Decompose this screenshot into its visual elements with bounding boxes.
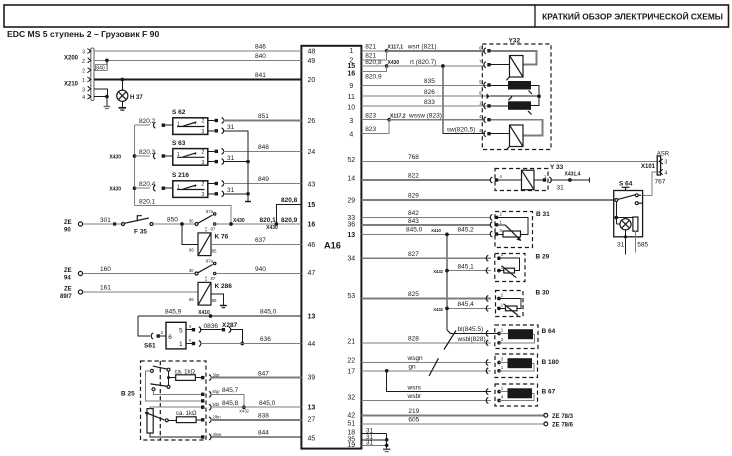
svg-text:S 216: S 216 bbox=[172, 172, 189, 179]
svg-text:wsgn: wsgn bbox=[407, 355, 424, 362]
svg-text:rt (820.7): rt (820.7) bbox=[410, 59, 436, 66]
ground main bbox=[383, 448, 390, 450]
wire 842 A16 pin33 to B31 bbox=[361, 216, 491, 218]
wire 849 S216 pin2 to A16 pin43 bbox=[208, 183, 215, 185]
wire wsrs gn-junction to B67 bbox=[387, 371, 491, 392]
wire 160 bbox=[83, 273, 195, 275]
svg-text:2: 2 bbox=[82, 69, 85, 75]
header banner title text bbox=[534, 5, 536, 27]
svg-text:849: 849 bbox=[258, 176, 269, 183]
wire S64 left contact down bbox=[615, 202, 617, 225]
svg-text:820,1: 820,1 bbox=[139, 198, 156, 205]
wire 161 bbox=[83, 291, 198, 293]
svg-text:31: 31 bbox=[227, 124, 235, 131]
wire 845 sensor bus vertical bbox=[446, 234, 448, 330]
wire S216 pin3 to 31 bus bbox=[208, 193, 215, 195]
svg-text:X410: X410 bbox=[198, 310, 210, 316]
svg-text:46: 46 bbox=[308, 242, 316, 249]
wire 850 bbox=[153, 223, 195, 225]
wire H37 to ground bbox=[121, 101, 123, 108]
ground below K286 bbox=[220, 305, 227, 307]
wire 847 output to A16 pin39 bbox=[201, 376, 204, 379]
wire 822 A16 pin14 to Y33 bbox=[361, 179, 491, 181]
svg-text:27: 27 bbox=[308, 417, 316, 424]
svg-text:B 180: B 180 bbox=[542, 359, 560, 366]
svg-text:42: 42 bbox=[347, 412, 355, 419]
svg-text:21: 21 bbox=[347, 339, 355, 346]
wire 851 S62 pin2 to A16 pin26 bbox=[208, 120, 215, 122]
wire 823 A16 pin4 joins pin3 bbox=[361, 120, 389, 134]
svg-text:87: 87 bbox=[211, 226, 216, 231]
svg-text:29: 29 bbox=[347, 198, 355, 205]
svg-text:wsbl(828): wsbl(828) bbox=[457, 336, 486, 343]
svg-text:K 286: K 286 bbox=[215, 283, 233, 290]
svg-text:31: 31 bbox=[617, 242, 625, 249]
wire K286 coil to ground bbox=[211, 294, 223, 306]
svg-text:51: 51 bbox=[347, 420, 355, 427]
svg-text:X430: X430 bbox=[233, 218, 245, 224]
svg-text:820,8: 820,8 bbox=[281, 197, 298, 204]
svg-text:823: 823 bbox=[365, 126, 376, 133]
svg-text:15: 15 bbox=[347, 63, 355, 70]
wire 767 X101 pin4 to S64 bbox=[641, 172, 657, 195]
relay coil K 286 bbox=[198, 282, 211, 305]
svg-text:845,0: 845,0 bbox=[260, 309, 277, 316]
relay coil K 76 bbox=[198, 233, 211, 256]
svg-text:15: 15 bbox=[308, 202, 316, 209]
svg-text:X430: X430 bbox=[109, 187, 121, 193]
svg-text:828: 828 bbox=[408, 336, 419, 343]
wire 301 bbox=[83, 223, 122, 225]
svg-text:КРАТКИЙ ОБЗОР ЭЛЕКТРИЧЕСКОЙ СХ: КРАТКИЙ ОБЗОР ЭЛЕКТРИЧЕСКОЙ СХЕМЫ bbox=[542, 11, 723, 22]
svg-text:838: 838 bbox=[258, 413, 269, 420]
svg-text:X117,2: X117,2 bbox=[390, 113, 406, 119]
svg-text:X432: X432 bbox=[433, 307, 443, 312]
svg-text:825: 825 bbox=[408, 291, 419, 298]
lamp H 37 bbox=[121, 80, 123, 91]
wire 838 output to A16 pin27 bbox=[201, 418, 204, 421]
wire 820.9 A16 pin16 joins 820.8 bbox=[361, 66, 386, 72]
svg-text:1: 1 bbox=[82, 78, 85, 84]
svg-text:24: 24 bbox=[308, 149, 316, 156]
svg-text:34: 34 bbox=[347, 255, 355, 262]
svg-text:845,8: 845,8 bbox=[222, 400, 239, 407]
svg-text:47: 47 bbox=[308, 270, 316, 277]
svg-text:wsbr: wsbr bbox=[407, 393, 423, 400]
wire 768 A16 pin52 to X101 pin3 bbox=[361, 160, 657, 162]
svg-text:85: 85 bbox=[212, 298, 217, 303]
A16 left pin numbers bbox=[308, 48, 316, 442]
svg-text:ZE 78/6: ZE 78/6 bbox=[552, 422, 574, 428]
svg-text:820,9: 820,9 bbox=[281, 217, 298, 224]
svg-text:26: 26 bbox=[308, 118, 316, 125]
svg-text:11: 11 bbox=[348, 94, 355, 101]
svg-text:48: 48 bbox=[308, 48, 316, 55]
svg-text:X430: X430 bbox=[266, 225, 278, 231]
svg-text:B 67: B 67 bbox=[542, 389, 556, 396]
svg-text:44: 44 bbox=[308, 341, 316, 348]
svg-text:3: 3 bbox=[202, 160, 205, 166]
svg-text:sw(820,5): sw(820,5) bbox=[447, 126, 476, 133]
svg-text:31: 31 bbox=[366, 440, 374, 447]
svg-text:X431,4: X431,4 bbox=[565, 172, 581, 178]
wire S62 pin3 to 31 bus bbox=[208, 130, 215, 132]
wire wsbr A16 pin32 to B67 bbox=[361, 400, 491, 402]
svg-text:940: 940 bbox=[255, 266, 266, 273]
wire 843 A16 pin36 to B31 bbox=[361, 224, 491, 226]
solenoid valve Y32 upper bbox=[510, 56, 524, 78]
svg-text:18: 18 bbox=[347, 430, 355, 437]
resistor heater Y32 upper black bbox=[508, 81, 531, 90]
svg-text:13: 13 bbox=[308, 314, 316, 321]
svg-text:16: 16 bbox=[347, 71, 355, 78]
svg-text:31: 31 bbox=[227, 155, 235, 162]
wire 841 bbox=[94, 79, 301, 81]
ground end of 31 bus bbox=[245, 201, 251, 203]
wire 844 pot bottom to A16 pin45 bbox=[150, 433, 201, 437]
svg-text:767: 767 bbox=[655, 179, 666, 186]
wire 820.8 branch to A16 pin15 bbox=[276, 204, 301, 224]
svg-text:6/gr: 6/gr bbox=[213, 389, 221, 394]
wire 845.7 output bbox=[154, 391, 202, 395]
svg-text:637: 637 bbox=[255, 237, 266, 244]
wire pot top to 845.8 output bbox=[150, 407, 201, 408]
svg-text:X430: X430 bbox=[109, 154, 121, 160]
svg-text:13: 13 bbox=[347, 232, 355, 239]
svg-text:768: 768 bbox=[408, 154, 419, 161]
wire idle switch to internal pin bbox=[146, 371, 201, 401]
node junction 850/K76 coil bbox=[180, 222, 184, 226]
svg-text:Y 33: Y 33 bbox=[550, 164, 564, 171]
svg-text:827: 827 bbox=[408, 251, 419, 258]
wire 840 stub from X200 pin2 with framed label bbox=[94, 60, 107, 70]
svg-text:52: 52 bbox=[347, 157, 355, 164]
svg-text:S61: S61 bbox=[144, 343, 156, 350]
svg-text:5/bl: 5/bl bbox=[213, 402, 220, 407]
resistor heater Y32 lower black bbox=[508, 101, 531, 110]
wire 820 feed bus vertical bbox=[134, 125, 136, 205]
wire 845.9 / 845.0 to A16 pin13 bbox=[138, 315, 301, 317]
svg-text:3: 3 bbox=[349, 118, 353, 125]
wire 829 A16 pin29 to S64 bbox=[361, 199, 613, 201]
wire 820.4 input to S216 bbox=[135, 187, 151, 189]
connector into S61 bbox=[151, 333, 153, 339]
svg-text:X117,1: X117,1 bbox=[388, 45, 404, 51]
svg-text:wssw (823): wssw (823) bbox=[408, 112, 442, 119]
wire Y33 to ground X431.4 bbox=[551, 179, 590, 181]
svg-text:gn: gn bbox=[408, 364, 416, 371]
svg-text:822: 822 bbox=[408, 173, 419, 180]
svg-text:B 64: B 64 bbox=[542, 328, 556, 335]
svg-text:0836: 0836 bbox=[204, 323, 219, 330]
wire 820.8 A16 pin15 rt(820.7) bbox=[361, 65, 386, 67]
wire 605 A16 pin51 to ZE 78/6 bbox=[361, 423, 543, 425]
svg-text:49: 49 bbox=[308, 58, 316, 65]
svg-text:X430: X430 bbox=[388, 60, 400, 66]
svg-text:826: 826 bbox=[424, 89, 435, 96]
B25 full load switch bbox=[152, 388, 155, 391]
connector bar X200/X210 bbox=[91, 48, 94, 101]
wire 31 bus vertical right of switches bbox=[247, 131, 249, 202]
svg-text:9: 9 bbox=[349, 83, 353, 90]
svg-text:20: 20 bbox=[308, 77, 316, 84]
B31 potentiometer bbox=[503, 231, 521, 237]
wire resistor to 585 bbox=[634, 231, 636, 252]
svg-text:829: 829 bbox=[408, 193, 419, 200]
svg-text:H 37: H 37 bbox=[130, 95, 143, 101]
svg-text:X432: X432 bbox=[433, 269, 443, 274]
svg-text:845,7: 845,7 bbox=[222, 387, 239, 394]
resistor in S64 bbox=[633, 217, 638, 231]
wire 820.1 X430 junction to A16 pin16 bbox=[216, 223, 302, 225]
wire 827 A16 pin34 to B29 bbox=[361, 257, 491, 259]
svg-text:846: 846 bbox=[255, 44, 266, 51]
node junction H37 on wire 841 bbox=[120, 78, 124, 82]
svg-text:841: 841 bbox=[255, 72, 266, 79]
svg-text:86: 86 bbox=[189, 247, 194, 252]
wire 845.1 to B29 bbox=[447, 270, 491, 272]
wire S63 pin3 to 31 bus bbox=[208, 161, 215, 163]
fuse switch F 35 bbox=[122, 223, 125, 226]
svg-text:ZE: ZE bbox=[64, 220, 72, 226]
wire 845.4 to B30 bbox=[447, 307, 491, 309]
svg-text:K 76: K 76 bbox=[215, 233, 229, 240]
potentiometer B25 bbox=[147, 409, 153, 433]
svg-text:301: 301 bbox=[100, 217, 111, 224]
svg-text:B 29: B 29 bbox=[536, 253, 550, 260]
svg-text:wsrt (821): wsrt (821) bbox=[407, 44, 437, 51]
wire X287 to 636 bbox=[230, 330, 242, 344]
node X430 on bus at S216 bbox=[133, 186, 137, 190]
svg-text:ZE: ZE bbox=[64, 268, 72, 274]
svg-text:S 64: S 64 bbox=[619, 180, 633, 187]
svg-text:S 62: S 62 bbox=[172, 109, 186, 116]
svg-text:31: 31 bbox=[227, 187, 235, 194]
svg-text:X101: X101 bbox=[641, 164, 656, 170]
wire wsbl(828) A16 pin21 to B64 bbox=[361, 342, 491, 344]
svg-text:848: 848 bbox=[258, 144, 269, 151]
svg-text:45: 45 bbox=[308, 435, 316, 442]
svg-text:4/sw: 4/sw bbox=[213, 432, 223, 437]
node X432 junction B25 bbox=[242, 405, 246, 409]
svg-text:F 35: F 35 bbox=[134, 229, 147, 236]
wire lamp to 31 bbox=[625, 230, 627, 255]
wire 821 A16 pin1 to Y32 pin6 wsrt bbox=[361, 50, 386, 52]
svg-text:32: 32 bbox=[347, 395, 355, 402]
svg-text:89/7: 89/7 bbox=[60, 294, 72, 300]
svg-text:19: 19 bbox=[347, 442, 355, 449]
wire to resistor top bbox=[616, 216, 635, 218]
ECU A16 box bbox=[301, 46, 361, 449]
svg-text:B 25: B 25 bbox=[121, 391, 135, 398]
svg-text:Z: Z bbox=[82, 59, 85, 65]
svg-text:842: 842 bbox=[408, 210, 419, 217]
svg-text:3: 3 bbox=[665, 159, 668, 165]
svg-text:39: 39 bbox=[308, 375, 316, 382]
ground below H37 bbox=[119, 107, 126, 109]
header banner frame bbox=[4, 5, 729, 27]
svg-text:820,9: 820,9 bbox=[365, 74, 382, 81]
svg-text:845,4: 845,4 bbox=[458, 301, 475, 308]
svg-text:14: 14 bbox=[347, 176, 355, 183]
svg-text:B 31: B 31 bbox=[536, 211, 550, 218]
svg-text:53: 53 bbox=[347, 293, 355, 300]
node X410 junction right bbox=[445, 233, 449, 237]
wire riser 845.9 to S61 bbox=[138, 316, 150, 336]
svg-text:833: 833 bbox=[424, 99, 435, 106]
twisted pair mark B64 bbox=[444, 331, 456, 350]
svg-text:3: 3 bbox=[82, 87, 85, 93]
B25 idle switch bbox=[150, 369, 153, 372]
svg-text:851: 851 bbox=[258, 113, 269, 120]
svg-text:820,1: 820,1 bbox=[260, 217, 277, 224]
node X410 junction bbox=[209, 314, 213, 318]
wire 840 bbox=[94, 59, 301, 61]
wire 823 A16 pin3 wssw bbox=[361, 119, 389, 121]
svg-text:845,1: 845,1 bbox=[458, 263, 475, 270]
svg-text:2: 2 bbox=[202, 182, 205, 188]
wire 825 A16 pin53 to B30 bbox=[361, 298, 491, 300]
svg-text:31: 31 bbox=[557, 185, 565, 192]
svg-text:87: 87 bbox=[211, 276, 216, 281]
wire 821 A16 pin2 joins pin1 bbox=[361, 51, 386, 60]
wire 940 to A16 pin47 bbox=[216, 273, 302, 275]
svg-text:X210: X210 bbox=[64, 82, 79, 88]
svg-text:847: 847 bbox=[258, 370, 269, 377]
wire 820.3 input to S63 bbox=[135, 155, 151, 157]
svg-text:3: 3 bbox=[82, 50, 85, 56]
wire 31 A16 pin18 bbox=[361, 433, 386, 435]
svg-text:36: 36 bbox=[347, 221, 355, 228]
svg-text:22: 22 bbox=[347, 357, 355, 364]
node junction rt branch bbox=[441, 64, 445, 68]
wire X210 pin4 to ground bbox=[94, 97, 107, 107]
wire 31 A16 pin19 bbox=[361, 444, 386, 446]
svg-text:845,2: 845,2 bbox=[458, 227, 475, 234]
wire 848 S63 pin2 to A16 pin24 bbox=[208, 150, 215, 152]
svg-text:13: 13 bbox=[308, 404, 316, 411]
svg-text:2: 2 bbox=[202, 150, 205, 156]
svg-text:94: 94 bbox=[64, 276, 71, 282]
svg-text:87a: 87a bbox=[206, 258, 214, 263]
svg-text:ZE: ZE bbox=[64, 287, 72, 293]
svg-text:ZE 78/3: ZE 78/3 bbox=[552, 414, 574, 420]
svg-text:850: 850 bbox=[167, 217, 178, 224]
svg-text:835: 835 bbox=[424, 78, 435, 85]
svg-text:A16: A16 bbox=[324, 240, 341, 250]
wire 833 A16 pin10 to Y32 pin1 bbox=[361, 105, 489, 107]
svg-text:wsrs: wsrs bbox=[407, 384, 422, 391]
wire 845.8 / 845.0 to A16 pin13 bbox=[201, 406, 204, 409]
svg-text:3: 3 bbox=[202, 129, 205, 135]
svg-text:5: 5 bbox=[179, 327, 183, 334]
wire 820.1 horizontal to riser bbox=[135, 206, 232, 224]
svg-text:845,0: 845,0 bbox=[259, 400, 276, 407]
svg-text:843: 843 bbox=[408, 218, 419, 225]
wire 31 A16 pin35 bbox=[361, 439, 386, 441]
wire 826 A16 pin11 to Y32 pin9 bbox=[361, 95, 489, 97]
svg-text:605: 605 bbox=[408, 417, 419, 424]
terminal ZE 78/6 bbox=[544, 422, 548, 426]
terminal ZE 78/3 bbox=[544, 413, 548, 417]
svg-text:10: 10 bbox=[347, 105, 355, 112]
wire Y32 pin6 to valve1 right bbox=[491, 51, 537, 65]
svg-text:43: 43 bbox=[308, 181, 316, 188]
svg-text:EDC MS 5 ступень 2 – Грузовик: EDC MS 5 ступень 2 – Грузовик F 90 bbox=[7, 29, 159, 39]
svg-text:823: 823 bbox=[365, 112, 376, 119]
wire common of black resistors bbox=[531, 85, 539, 105]
svg-text:17: 17 bbox=[347, 368, 355, 375]
svg-text:X200: X200 bbox=[64, 56, 79, 62]
svg-text:820,8: 820,8 bbox=[365, 59, 382, 66]
twisted pair mark B180 bbox=[429, 358, 438, 376]
wire switch commons to resistor bbox=[168, 371, 170, 385]
svg-text:86: 86 bbox=[189, 297, 194, 302]
svg-text:16: 16 bbox=[308, 221, 316, 228]
svg-text:2: 2 bbox=[202, 119, 205, 125]
svg-text:585: 585 bbox=[637, 242, 648, 249]
wire junction to K76 coil bbox=[182, 224, 198, 244]
lamp in S64 bbox=[616, 223, 620, 225]
svg-text:840: 840 bbox=[96, 66, 105, 72]
wire X210 pin3 to pin4 jumper bbox=[94, 89, 108, 97]
svg-text:840: 840 bbox=[255, 53, 266, 60]
svg-text:3: 3 bbox=[202, 192, 205, 198]
svg-text:636: 636 bbox=[260, 336, 271, 343]
svg-text:219: 219 bbox=[408, 408, 419, 415]
svg-text:161: 161 bbox=[100, 285, 111, 292]
wire 845.0 / 845.2 A16 pin13 to B31 bbox=[361, 233, 491, 235]
wire wsgn A16 pin22 to B180 bbox=[361, 362, 491, 364]
svg-text:1: 1 bbox=[179, 341, 183, 348]
A16 right pin numbers bbox=[347, 48, 355, 449]
node X430 on bus at S63 bbox=[133, 154, 137, 158]
svg-text:30: 30 bbox=[189, 268, 194, 273]
wire 637 K76 coil to A16 pin46 bbox=[211, 243, 301, 245]
wire S61 pin1 / 636 to A16 pin44 bbox=[186, 343, 192, 345]
wire gn A16 pin17 to B180 bbox=[361, 370, 491, 372]
svg-text:845,9: 845,9 bbox=[165, 309, 182, 316]
wire 835 A16 pin9 to Y32 pin5 bbox=[361, 84, 489, 86]
svg-text:X432: X432 bbox=[239, 409, 249, 414]
ground below X210 bbox=[104, 106, 111, 108]
svg-text:90: 90 bbox=[64, 228, 71, 234]
svg-text:85: 85 bbox=[212, 248, 217, 253]
wire 219 A16 pin42 to ZE 78/3 bbox=[361, 414, 543, 416]
svg-text:S 63: S 63 bbox=[172, 140, 186, 147]
svg-text:1: 1 bbox=[349, 48, 353, 55]
svg-text:845,0: 845,0 bbox=[406, 227, 423, 234]
wire 820.2 input to S62 bbox=[135, 124, 151, 126]
svg-text:160: 160 bbox=[100, 266, 111, 273]
wire Y32 pin4 to valve2 right bbox=[491, 120, 543, 136]
wire 846 bbox=[94, 50, 301, 52]
svg-text:6: 6 bbox=[168, 334, 172, 341]
svg-text:821: 821 bbox=[365, 44, 376, 51]
svg-text:4: 4 bbox=[349, 131, 353, 138]
svg-text:4: 4 bbox=[82, 95, 85, 101]
svg-text:87a: 87a bbox=[206, 209, 214, 214]
B25 internal partition bbox=[159, 361, 161, 440]
svg-text:30: 30 bbox=[189, 218, 194, 223]
svg-text:B 30: B 30 bbox=[536, 290, 550, 297]
wire S61 pin5 output 0836 bbox=[186, 329, 192, 331]
svg-text:4: 4 bbox=[665, 171, 668, 177]
wire branch rt to sw(820.5) bbox=[443, 66, 485, 134]
wire 31 collector vertical bbox=[386, 434, 388, 450]
solenoid valve Y32 lower bbox=[510, 125, 524, 147]
svg-text:X410: X410 bbox=[431, 228, 441, 233]
